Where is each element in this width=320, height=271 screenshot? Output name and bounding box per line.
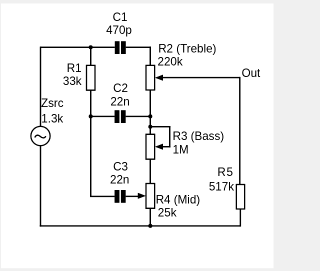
wire R3 wiper loop right: [169, 126, 171, 147]
svg-text:C2: C2: [113, 82, 128, 95]
wire R2 wiper to Out: [161, 77, 240, 79]
resistor R5: [209, 166, 245, 209]
junction R3 wiper tap: [148, 125, 152, 129]
capacitor C1: [106, 11, 132, 54]
svg-text:C1: C1: [113, 11, 128, 24]
svg-text:R1: R1: [67, 62, 82, 75]
wire R4 bottom lead: [149, 208, 151, 226]
wire top rail left of C1: [41, 46, 115, 48]
wire R3 wiper loop top: [150, 126, 170, 128]
svg-text:220k: 220k: [158, 56, 183, 69]
svg-text:1.3k: 1.3k: [41, 112, 63, 125]
svg-text:Out: Out: [242, 67, 261, 80]
wire R3 bottom to R4 top: [149, 159, 151, 183]
svg-text:22n: 22n: [110, 174, 129, 187]
svg-text:1M: 1M: [173, 143, 189, 156]
wire left vertical upper: [40, 47, 42, 127]
wire bottom rail: [40, 225, 241, 227]
capacitor C3: [110, 160, 129, 202]
svg-text:517k: 517k: [209, 180, 234, 193]
svg-text:R5: R5: [217, 166, 233, 179]
wire R2 top lead: [149, 47, 151, 66]
svg-text:22n: 22n: [110, 95, 129, 108]
svg-text:C3: C3: [113, 160, 128, 173]
resistor R1: [63, 62, 95, 90]
wire R2 bottom to R3 top: [149, 90, 151, 134]
capacitor C2: [110, 82, 129, 123]
wire R1 bottom to C3 corner: [90, 90, 92, 196]
potentiometer R2 (Treble): [146, 43, 217, 91]
svg-text:R2 (Treble): R2 (Treble): [158, 43, 216, 56]
svg-text:25k: 25k: [158, 207, 177, 220]
svg-text:R4 (Mid): R4 (Mid): [156, 193, 201, 206]
svg-text:33k: 33k: [63, 75, 82, 88]
junction top of R1: [89, 45, 93, 49]
junction bottom rail R4: [148, 224, 152, 228]
potentiometer R3 (Bass): [146, 130, 224, 159]
potentiometer R4 (Mid): [138, 184, 200, 220]
wire top rail right of C1: [126, 46, 151, 48]
wire C2 right lead: [126, 115, 151, 117]
source Zsrc: [31, 97, 64, 146]
wire C3 left lead: [90, 195, 115, 197]
junction C2 right: [148, 114, 152, 118]
wire Out vertical to R5: [239, 77, 241, 185]
svg-text:R3 (Bass): R3 (Bass): [173, 130, 225, 143]
wire left vertical lower: [40, 146, 42, 227]
wire R5 bottom lead: [239, 209, 241, 227]
svg-text:Zsrc: Zsrc: [41, 97, 64, 110]
junction C2 left: [89, 114, 93, 118]
wire R3 wiper loop bottom: [161, 146, 171, 148]
svg-text:470p: 470p: [106, 24, 132, 37]
wire C3 to R4 wiper: [126, 195, 140, 197]
wire R1 top lead: [90, 47, 92, 65]
wire C2 left lead: [90, 115, 115, 117]
